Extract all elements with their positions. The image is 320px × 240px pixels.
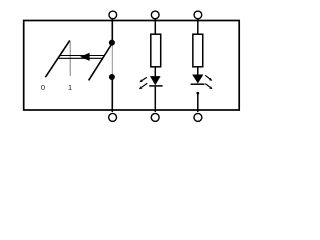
actuator arrowhead	[80, 53, 90, 61]
LED D2 light arrow upper	[205, 75, 212, 81]
wire: branch 1 top stem	[154, 19, 156, 35]
resistor R2	[193, 34, 203, 67]
wire: switch mid vertical thin (between junctions)	[111, 43, 113, 77]
LED D2 cathode bar	[191, 83, 205, 85]
enclosure box	[24, 21, 240, 111]
terminal: bottom left	[109, 113, 117, 121]
node: LED2 cathode connection dot	[196, 92, 199, 95]
wire: switch lower vertical (lower junction to bottom edge)	[111, 77, 113, 112]
switch S1 position 1 guide line	[69, 42, 71, 77]
LED D1 light arrow lower	[139, 83, 147, 89]
wire: R1 to LED1	[154, 67, 156, 77]
LED D1 triangle	[150, 76, 161, 85]
node: lower junction	[109, 74, 115, 80]
wire: branch 2 top stem	[197, 19, 199, 35]
node: upper junction	[109, 40, 115, 46]
wire: R2 to LED2	[197, 67, 199, 75]
wire: LED2 dot to bottom edge	[197, 93, 199, 112]
svg-text:1: 1	[68, 83, 72, 92]
terminal: top left	[109, 11, 117, 19]
LED D1 cathode bar	[149, 85, 162, 87]
switch S1 lever position 0	[45, 40, 69, 77]
svg-text:0: 0	[41, 83, 45, 92]
terminal: top right	[194, 11, 202, 19]
switch S1 movable lever	[89, 43, 113, 80]
resistor R1	[151, 34, 161, 67]
terminal: bottom right	[194, 113, 202, 121]
terminal: top middle	[151, 11, 159, 19]
LED D1 light arrow upper	[139, 77, 147, 82]
actuator shaft lower line	[58, 57, 103, 59]
LED D2 triangle	[192, 75, 203, 84]
actuator shaft upper line	[60, 55, 105, 57]
LED D2 light arrow lower	[205, 84, 212, 90]
wire: switch common vertical (top terminal to upper junction)	[111, 19, 113, 44]
wire: LED1 cathode to bottom edge	[154, 87, 156, 112]
terminal: bottom middle	[151, 113, 159, 121]
